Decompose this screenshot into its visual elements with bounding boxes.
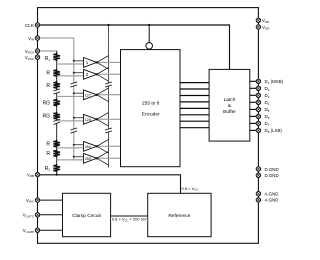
wire VRB line <box>38 175 181 194</box>
svg-text:VDD: VDD <box>262 18 270 24</box>
label 0.8 x VCC + 200 mV <box>111 217 147 222</box>
wire VRCA to ladder top <box>38 51 57 54</box>
break clock bus lower <box>105 128 112 133</box>
pin D.GND 2 <box>256 173 260 177</box>
break clock bus upper <box>105 82 112 87</box>
pin VDD 1 <box>256 18 260 22</box>
break VIN bus lower <box>71 128 78 133</box>
svg-text:D2: D2 <box>265 86 270 92</box>
reference block <box>148 193 211 236</box>
comparator 1 <box>57 56 121 70</box>
resistor R (6th) <box>53 140 60 148</box>
comparator 255 <box>57 152 121 166</box>
svg-text:Clamp Circuit: Clamp Circuit <box>72 213 101 219</box>
svg-text:0.8 × VCC + 200 mV: 0.8 × VCC + 200 mV <box>112 217 147 223</box>
chip border <box>38 8 259 244</box>
pin VOUTC <box>35 213 39 217</box>
pin VIN <box>35 36 39 40</box>
break VIN bus upper <box>71 82 78 87</box>
svg-text:VINC: VINC <box>26 198 35 204</box>
encoder to latch wires <box>180 83 209 128</box>
comparator 128 <box>57 113 121 127</box>
resistor R (3rd) <box>53 81 60 89</box>
svg-text:D3: D3 <box>265 93 270 99</box>
node ladder bottom junction <box>56 174 58 176</box>
pin A.GND 2 <box>256 198 260 202</box>
pin D8 LSB <box>256 128 260 132</box>
latch and buffer block U2 <box>209 69 250 141</box>
wire encoder clock stem <box>148 25 150 42</box>
svg-text:D7: D7 <box>265 121 270 127</box>
svg-text:R: R <box>46 141 50 147</box>
svg-text:VRB: VRB <box>27 172 34 178</box>
comparator 2 <box>57 68 121 82</box>
svg-text:255: 255 <box>85 157 91 161</box>
wire CLK line <box>38 25 230 69</box>
svg-text:D6: D6 <box>265 114 270 120</box>
encoder block <box>121 50 181 167</box>
svg-text:R: R <box>46 151 50 157</box>
pin D1 MSB <box>256 79 260 83</box>
svg-text:CLK: CLK <box>25 23 35 28</box>
wire clock bus <box>108 25 110 168</box>
svg-text:VCLMP: VCLMP <box>23 228 34 234</box>
resistor RG (4th) <box>53 99 60 107</box>
break ladder upper <box>53 89 60 94</box>
svg-text:D4: D4 <box>265 100 270 106</box>
svg-text:A.GND: A.GND <box>265 192 279 197</box>
latch to output pin wires <box>250 81 259 130</box>
pin D5 <box>256 107 260 111</box>
pin D3 <box>256 93 260 97</box>
wire VIN bus <box>38 38 74 161</box>
pin D.GND 1 <box>256 167 260 171</box>
svg-text:255 to 8: 255 to 8 <box>142 101 160 107</box>
svg-text:R: R <box>46 83 50 89</box>
svg-text:VOUTC: VOUTC <box>23 213 35 219</box>
svg-text:D.GND: D.GND <box>265 173 279 178</box>
svg-text:D.GND: D.GND <box>265 167 279 172</box>
clamp circuit block <box>63 193 111 236</box>
svg-text:128: 128 <box>85 118 91 122</box>
svg-text:R2: R2 <box>45 166 51 172</box>
encoder clock bubble <box>146 43 153 50</box>
svg-text:RG: RG <box>43 101 51 107</box>
pin D6 <box>256 114 260 118</box>
pin D4 <box>256 100 260 104</box>
svg-text:VRCA: VRCA <box>25 49 34 55</box>
pin VRB <box>35 172 39 176</box>
resistor R2 (8th) <box>53 164 60 172</box>
svg-text:VRCA: VRCA <box>25 55 34 61</box>
resistor R1 <box>53 53 60 61</box>
svg-text:D5: D5 <box>265 107 270 113</box>
svg-text:VDD: VDD <box>262 25 270 31</box>
resistor RG (5th) <box>53 112 60 120</box>
svg-text:Reference: Reference <box>168 213 190 219</box>
svg-text:R1: R1 <box>45 56 51 62</box>
node clock bus junction <box>107 24 109 26</box>
svg-text:D1 (MSB): D1 (MSB) <box>265 79 284 85</box>
pin VINC <box>35 198 39 202</box>
svg-text:VIN: VIN <box>28 36 34 42</box>
pin D2 <box>256 86 260 90</box>
svg-text:A.GND: A.GND <box>265 198 279 203</box>
wire clamp inputs <box>38 200 63 230</box>
pin VRCA lower <box>35 55 39 59</box>
wire clamp to reference <box>111 215 148 217</box>
svg-text:D8 (LSB): D8 (LSB) <box>265 128 283 134</box>
svg-text:R: R <box>46 71 50 77</box>
break ladder lower <box>53 119 60 124</box>
resistor R (2nd) <box>53 69 60 77</box>
pin A.GND 1 <box>256 192 260 196</box>
pin VDD 2 <box>256 25 260 29</box>
pin VRCA upper <box>35 49 39 53</box>
node encoder stem junction <box>148 24 150 26</box>
pin VCLMP <box>35 228 39 232</box>
svg-text:Buffer: Buffer <box>223 109 236 115</box>
svg-text:127: 127 <box>85 93 91 97</box>
svg-text:RG: RG <box>43 114 51 120</box>
comparator 127 <box>57 88 121 102</box>
pin CLK <box>35 23 39 27</box>
comparator 254 <box>57 140 121 154</box>
svg-text:Encoder: Encoder <box>142 112 160 118</box>
resistor ladder vertical <box>56 51 58 175</box>
resistor R (7th) <box>53 150 60 158</box>
pin D7 <box>256 121 260 125</box>
svg-text:0.6 × VCC: 0.6 × VCC <box>182 186 199 192</box>
svg-text:254: 254 <box>85 145 91 149</box>
svg-text:Latch: Latch <box>224 97 236 103</box>
